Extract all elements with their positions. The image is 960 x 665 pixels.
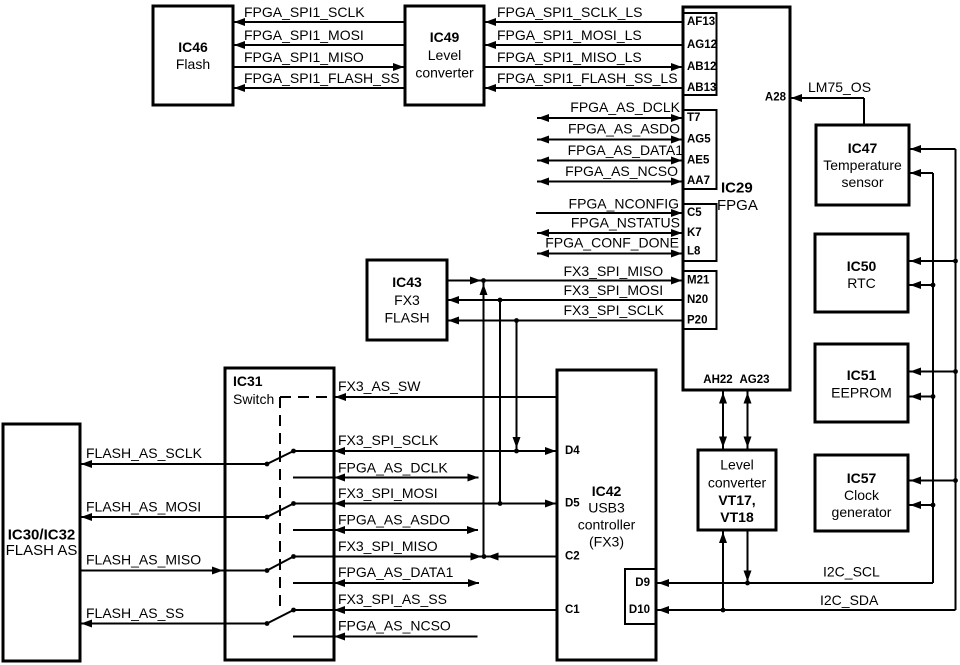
wire I2C_SCL to IC51: [909, 396, 933, 398]
wire FLASH_AS_MOSI: [80, 516, 267, 518]
pin group T7 AG5 AE5 AA7: [683, 110, 717, 189]
svg-text:FPGA_SPI1_FLASH_SS: FPGA_SPI1_FLASH_SS: [244, 70, 400, 86]
svg-text:converter: converter: [415, 65, 474, 81]
svg-text:RTC: RTC: [847, 275, 876, 291]
wire FX3_SPI_SCLK trunk: [447, 320, 683, 322]
wire FLASH_AS_MISO: [80, 570, 267, 572]
switch 3: [265, 568, 270, 573]
level converter VT17 VT18 block: [698, 450, 776, 530]
svg-text:FPGA_SPI1_MOSI_LS: FPGA_SPI1_MOSI_LS: [497, 27, 642, 43]
svg-text:FPGA_SPI1_SCLK_LS: FPGA_SPI1_SCLK_LS: [497, 4, 643, 20]
wire I2C_SDA to IC50: [909, 260, 956, 262]
wire I2C_SCL horizontal: [657, 582, 933, 584]
wire FPGA_AS_DATA1 from switch: [293, 582, 479, 584]
svg-text:AG23: AG23: [739, 374, 769, 386]
wire FPGA_SPI1_MISO_LS: [484, 66, 683, 68]
IC42 USB3 controller block: [557, 370, 656, 660]
svg-text:FPGA_AS_DCLK: FPGA_AS_DCLK: [338, 460, 448, 476]
svg-text:FX3_SPI_SCLK: FX3_SPI_SCLK: [564, 302, 665, 318]
svg-text:AH22: AH22: [703, 374, 732, 386]
svg-text:VT18: VT18: [720, 509, 754, 525]
svg-text:FPGA_AS_DATA1: FPGA_AS_DATA1: [338, 564, 454, 580]
svg-text:C2: C2: [565, 551, 580, 563]
svg-text:FPGA_AS_ASDO: FPGA_AS_ASDO: [338, 512, 450, 528]
svg-text:FX3_SPI_MISO: FX3_SPI_MISO: [564, 263, 664, 279]
svg-text:M21: M21: [687, 275, 710, 287]
svg-text:IC49: IC49: [430, 29, 460, 45]
svg-text:FPGA_AS_ASDO: FPGA_AS_ASDO: [568, 121, 680, 137]
wire FPGA_SPI1_FLASH_SS: [233, 87, 405, 89]
svg-text:A28: A28: [765, 92, 787, 104]
pin group M21 N20 P20: [683, 271, 717, 329]
svg-text:controller: controller: [578, 517, 636, 533]
svg-text:AB12: AB12: [687, 61, 716, 73]
svg-text:AG5: AG5: [687, 134, 711, 146]
svg-text:AA7: AA7: [687, 175, 710, 187]
svg-text:IC57: IC57: [847, 470, 877, 486]
svg-text:EEPROM: EEPROM: [831, 385, 892, 401]
IC43 FX3 FLASH block: [367, 260, 447, 340]
wire FPGA_AS_DCLK from switch: [293, 477, 479, 479]
pin group D9 D10: [625, 569, 656, 624]
wire FPGA_AS_ASDO: [537, 139, 683, 141]
svg-text:FX3_AS_SW: FX3_AS_SW: [338, 378, 421, 394]
wire FX3_SPI_MISO to C2: [294, 556, 558, 558]
svg-text:IC30/IC32: IC30/IC32: [8, 527, 76, 544]
svg-text:FLASH AS: FLASH AS: [6, 542, 78, 559]
svg-text:IC50: IC50: [847, 258, 877, 274]
svg-text:Switch: Switch: [233, 391, 274, 407]
wire I2C_SCL to IC57: [909, 504, 933, 506]
svg-text:FPGA_AS_NCSO: FPGA_AS_NCSO: [565, 163, 678, 179]
wire I2C_SDA to IC57: [909, 480, 956, 482]
IC51 EEPROM block: [815, 344, 908, 422]
svg-text:VT17,: VT17,: [718, 492, 755, 508]
wire FPGA_SPI1_SCLK: [233, 21, 405, 23]
svg-text:I2C_SCL: I2C_SCL: [823, 564, 880, 580]
IC57 Clock generator block: [815, 455, 908, 531]
wire FPGA_NCONFIG: [536, 212, 683, 214]
svg-text:D5: D5: [565, 498, 580, 510]
svg-text:generator: generator: [832, 504, 892, 520]
svg-text:FX3: FX3: [394, 292, 420, 308]
wire FPGA_SPI1_MISO: [233, 66, 405, 68]
svg-text:N20: N20: [687, 294, 708, 306]
svg-text:FPGA_SPI1_FLASH_SS_LS: FPGA_SPI1_FLASH_SS_LS: [497, 70, 678, 86]
wire I2C_SCL vertical bus: [932, 173, 934, 583]
svg-text:IC51: IC51: [847, 367, 877, 383]
svg-text:AB13: AB13: [687, 82, 716, 94]
svg-text:Level: Level: [428, 47, 461, 63]
svg-text:FLASH_AS_MOSI: FLASH_AS_MOSI: [86, 499, 201, 515]
IC50 RTC block: [815, 234, 908, 312]
IC29 FPGA block: [683, 7, 790, 390]
svg-text:(FX3): (FX3): [589, 534, 624, 550]
svg-text:FPGA_CONF_DONE: FPGA_CONF_DONE: [545, 235, 679, 251]
wire FPGA_SPI1_MOSI: [233, 44, 405, 46]
pin group C5 K7 L8: [683, 204, 717, 261]
wire I2C_SDA to IC47: [909, 148, 956, 150]
IC31 Switch block: [225, 368, 334, 660]
svg-text:P20: P20: [687, 315, 707, 327]
svg-text:I2C_SDA: I2C_SDA: [820, 592, 879, 608]
wire FPGA_AS_NCSO: [537, 181, 683, 183]
svg-text:FX3_SPI_MISO: FX3_SPI_MISO: [338, 538, 438, 554]
svg-text:FPGA_AS_DATA1: FPGA_AS_DATA1: [568, 142, 684, 158]
svg-text:D4: D4: [565, 445, 580, 457]
svg-text:FPGA_AS_NCSO: FPGA_AS_NCSO: [338, 618, 451, 634]
wire FX3_AS_SW: [334, 396, 557, 398]
svg-text:FPGA_SPI1_MOSI: FPGA_SPI1_MOSI: [244, 27, 364, 43]
wire LM75_OS: [790, 97, 864, 99]
svg-text:FX3_SPI_MOSI: FX3_SPI_MOSI: [338, 485, 438, 501]
wire FLASH_AS_SCLK: [80, 463, 267, 465]
wire FPGA_AS_ASDO from switch: [293, 529, 478, 531]
svg-text:IC46: IC46: [178, 39, 208, 55]
svg-text:converter: converter: [708, 475, 767, 491]
wire FX3_SPI_AS_SS to C1: [294, 609, 558, 611]
dashed control line: [280, 396, 333, 398]
svg-text:Level: Level: [720, 457, 753, 473]
svg-text:FPGA_SPI1_MISO_LS: FPGA_SPI1_MISO_LS: [497, 49, 642, 65]
svg-text:C5: C5: [687, 207, 702, 219]
svg-text:Temperature: Temperature: [823, 157, 902, 173]
wire I2C_SDA vertical bus: [955, 149, 957, 610]
switch 4: [265, 621, 270, 626]
vertical wire FX3_SPI_SCLK to D4: [516, 321, 518, 452]
wire FPGA_AS_DCLK: [537, 117, 683, 119]
wire I2C_SDA to IC51: [909, 371, 956, 373]
wire level converter to I2C_SCL: [747, 531, 749, 583]
svg-text:D10: D10: [629, 604, 650, 616]
wire FPGA_AS_NCSO from switch: [293, 636, 478, 638]
svg-text:IC47: IC47: [848, 140, 878, 156]
svg-text:IC29: IC29: [721, 180, 753, 197]
wire AH22 to level converter: [722, 392, 724, 449]
svg-text:sensor: sensor: [841, 174, 883, 190]
svg-text:T7: T7: [687, 112, 700, 124]
wire FPGA_NSTATUS: [537, 232, 683, 234]
wire level converter to I2C_SDA: [722, 531, 724, 610]
wire I2C_SDA horizontal: [657, 609, 956, 611]
wire I2C_SCL to IC50: [909, 284, 933, 286]
wire FPGA_SPI1_SCLK_LS: [484, 21, 683, 23]
svg-text:FLASH_AS_SS: FLASH_AS_SS: [86, 605, 184, 621]
svg-text:FLASH: FLASH: [384, 310, 429, 326]
svg-text:C1: C1: [565, 604, 580, 616]
wire FX3_SPI_MISO trunk: [447, 280, 683, 282]
wire FX3_SPI_MOSI trunk: [447, 299, 683, 301]
IC47 Temperature sensor block: [816, 125, 909, 205]
svg-text:FLASH_AS_MISO: FLASH_AS_MISO: [86, 552, 201, 568]
svg-text:Clock: Clock: [844, 487, 880, 503]
vertical wire FX3_SPI_MOSI to D5: [499, 300, 501, 504]
svg-text:FPGA_SPI1_SCLK: FPGA_SPI1_SCLK: [244, 4, 365, 20]
svg-text:AG12: AG12: [687, 39, 717, 51]
svg-text:Flash: Flash: [176, 56, 210, 72]
svg-text:FPGA: FPGA: [717, 197, 758, 214]
svg-text:FPGA_NSTATUS: FPGA_NSTATUS: [571, 215, 680, 231]
wire FPGA_CONF_DONE: [537, 253, 683, 255]
wire FX3_SPI_MOSI to D5: [294, 503, 558, 505]
wire FPGA_SPI1_FLASH_SS_LS: [484, 87, 683, 89]
svg-text:FX3_SPI_MOSI: FX3_SPI_MOSI: [564, 282, 664, 298]
svg-text:USB3: USB3: [588, 500, 625, 516]
svg-text:FX3_SPI_AS_SS: FX3_SPI_AS_SS: [338, 591, 447, 607]
svg-text:L8: L8: [687, 246, 701, 258]
svg-text:IC42: IC42: [592, 483, 622, 499]
wire FX3_SPI_SCLK to D4: [294, 450, 558, 452]
wire I2C_SCL to IC47: [909, 172, 933, 174]
svg-text:IC43: IC43: [392, 274, 422, 290]
svg-text:D9: D9: [635, 577, 650, 589]
svg-text:FPGA_SPI1_MISO: FPGA_SPI1_MISO: [244, 49, 364, 65]
svg-text:AF13: AF13: [687, 16, 715, 28]
IC46 Flash block: [153, 6, 233, 105]
pin group AF13 AG12 AB12 AB13: [683, 13, 717, 95]
svg-text:FLASH_AS_SCLK: FLASH_AS_SCLK: [86, 445, 203, 461]
svg-text:FX3_SPI_SCLK: FX3_SPI_SCLK: [338, 432, 439, 448]
svg-text:K7: K7: [687, 227, 702, 239]
wire FLASH_AS_SS: [80, 623, 267, 625]
IC30/IC32 FLASH AS block: [3, 424, 80, 661]
IC49 Level converter block: [405, 6, 484, 105]
svg-text:IC31: IC31: [233, 373, 263, 389]
svg-text:AE5: AE5: [687, 155, 710, 167]
svg-text:FPGA_AS_DCLK: FPGA_AS_DCLK: [570, 99, 680, 115]
wire AG23 to level converter: [747, 392, 749, 449]
wire FPGA_SPI1_MOSI_LS: [484, 44, 683, 46]
svg-text:LM75_OS: LM75_OS: [808, 79, 871, 95]
vertical wire FX3_SPI_MISO to C2: [483, 281, 485, 557]
switch 2: [265, 515, 270, 520]
wire FPGA_AS_DATA1: [537, 160, 683, 162]
switch 1: [265, 462, 270, 467]
svg-text:FPGA_NCONFIG: FPGA_NCONFIG: [569, 196, 679, 212]
